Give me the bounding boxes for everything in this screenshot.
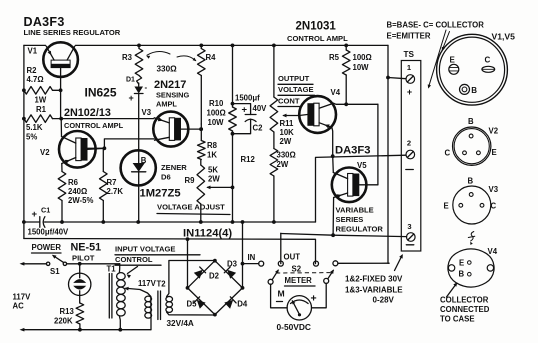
wire bottom border line — [24, 239, 316, 264]
svg-text:C: C — [485, 56, 491, 65]
svg-text:S1: S1 — [50, 267, 60, 276]
svg-text:10W: 10W — [353, 63, 370, 72]
label R13 — [54, 307, 74, 326]
label 1M27Z5 — [140, 188, 181, 200]
squiggle above V4 case — [468, 232, 475, 245]
svg-text:V2: V2 — [40, 148, 50, 157]
label D6 — [161, 173, 171, 182]
svg-text:2W: 2W — [208, 175, 220, 184]
transistor V2 — [59, 131, 104, 168]
svg-text:R3: R3 — [122, 53, 133, 62]
label 117V AC — [13, 293, 32, 311]
wire V4 collector down to V5 base — [377, 104, 379, 185]
terminal 1 screw — [406, 75, 415, 84]
label M — [278, 289, 285, 299]
svg-text:2: 2 — [407, 139, 411, 148]
label E=EMITTER — [387, 32, 431, 41]
svg-text:VARIABLE: VARIABLE — [336, 206, 374, 215]
svg-text:V3: V3 — [489, 185, 499, 194]
svg-text:R10: R10 — [209, 99, 224, 108]
arrow collector to case — [447, 282, 458, 297]
arrow 330 to R4 — [177, 56, 196, 61]
resistor R3 — [135, 45, 143, 84]
svg-text:METER: METER — [285, 276, 313, 285]
svg-text:D5: D5 — [187, 300, 198, 309]
transformer T2 core — [158, 291, 161, 320]
svg-text:V1,V5: V1,V5 — [492, 32, 516, 42]
svg-text:V3: V3 — [142, 108, 152, 117]
diode D2 — [194, 267, 206, 279]
label M minus — [277, 301, 283, 303]
label 40V C2 — [253, 104, 268, 113]
svg-text:1M27Z5: 1M27Z5 — [140, 188, 181, 200]
diode D5 — [194, 297, 206, 309]
svg-text:NE-51: NE-51 — [71, 242, 102, 254]
label VOLTAGE — [278, 85, 315, 95]
S2 gang dashed link — [276, 272, 333, 274]
case V1 V5 outline — [437, 34, 508, 105]
label C1 value — [28, 228, 70, 237]
svg-text:R6: R6 — [68, 178, 79, 187]
label C case V2 — [445, 149, 451, 158]
terminal strip TS outline — [401, 61, 421, 252]
svg-text:1W: 1W — [35, 96, 47, 105]
svg-text:-: - — [145, 83, 148, 92]
switch S2 pole left — [268, 269, 279, 284]
label CONTROL AMPL V4 — [287, 34, 348, 43]
wire top positive rail — [24, 44, 388, 46]
contact S2 A — [314, 261, 319, 266]
svg-text:CONTROL AMPL: CONTROL AMPL — [287, 34, 348, 43]
diode D1 — [134, 83, 143, 149]
svg-text:AMPL: AMPL — [156, 100, 177, 109]
label R12 — [241, 155, 256, 164]
svg-text:1500μf/40V: 1500μf/40V — [28, 228, 70, 237]
svg-text:CONNECTED: CONNECTED — [440, 305, 490, 314]
case V2 pins — [463, 134, 481, 155]
jack IN — [243, 261, 264, 266]
svg-text:VOLTAGE ADJUST: VOLTAGE ADJUST — [157, 203, 225, 212]
svg-text:AC: AC — [13, 302, 25, 311]
switch S2 pole right — [324, 269, 334, 283]
svg-text:DA3F3: DA3F3 — [335, 145, 370, 157]
svg-text:T1: T1 — [107, 265, 117, 274]
wire S2 B to rail riser — [388, 262, 390, 264]
svg-text:V1: V1 — [28, 47, 38, 56]
label V4 — [331, 88, 341, 97]
svg-text:2N102/13: 2N102/13 — [64, 107, 111, 119]
svg-text:LINE SERIES REGULATOR: LINE SERIES REGULATOR — [24, 28, 121, 37]
neon lamp NE-51 — [69, 264, 91, 303]
case V3 outline — [453, 186, 491, 224]
label D2 — [209, 272, 220, 281]
wire V5 collector up to TS2 line — [332, 156, 335, 172]
label SENSING — [156, 91, 190, 100]
wire bridge left node riser — [187, 239, 189, 288]
label V1 — [28, 47, 38, 56]
transistor V1 — [43, 42, 78, 90]
wire V1 base to sense line — [60, 90, 62, 118]
label TO CASE — [440, 315, 475, 324]
svg-text:0-50VDC: 0-50VDC — [277, 322, 311, 332]
potentiometer R9 — [197, 160, 205, 223]
label CONTROL — [115, 255, 161, 265]
terminal 2 screw — [406, 150, 415, 159]
svg-text:220K: 220K — [54, 317, 73, 326]
jack OUT — [278, 261, 283, 266]
svg-text:E: E — [450, 56, 456, 65]
resistor R2 — [24, 87, 61, 95]
label terminal 1 plus — [407, 87, 412, 97]
label R8 — [207, 141, 218, 160]
wire bus stub left of C1 — [24, 221, 40, 223]
wire bottom AC line — [80, 329, 151, 331]
transformer T2 secondary — [166, 261, 215, 316]
svg-text:E: E — [444, 202, 449, 211]
svg-text:330Ω: 330Ω — [157, 65, 178, 74]
label R11 — [280, 119, 295, 146]
label R2 wattage — [35, 96, 47, 105]
wire rail to R10 — [232, 45, 234, 103]
transformer T2 primary — [145, 296, 152, 330]
svg-text:+: + — [129, 93, 134, 103]
case V4 holes — [448, 265, 493, 271]
label AMPL — [156, 100, 177, 109]
svg-text:V5: V5 — [357, 161, 367, 170]
label R3 — [122, 53, 133, 62]
svg-text:R8: R8 — [207, 141, 218, 150]
transistor V3 — [153, 112, 201, 147]
svg-text:E: E — [459, 259, 464, 268]
label COLLECTOR — [440, 296, 489, 305]
svg-text:COLLECTOR: COLLECTOR — [440, 296, 489, 305]
label 1&2-FIXED 30V — [345, 275, 403, 284]
svg-text:4.7Ω: 4.7Ω — [27, 75, 44, 84]
label OUTPUT — [278, 74, 313, 84]
svg-text:2W-5%: 2W-5% — [68, 196, 93, 205]
svg-text:240Ω: 240Ω — [68, 187, 87, 196]
wire R10 bottom to wiper and bus — [232, 136, 234, 222]
label D1 minus — [145, 83, 148, 92]
case B terminal — [460, 84, 478, 94]
label D4 — [237, 300, 248, 309]
svg-text:ZENER: ZENER — [161, 163, 187, 172]
svg-text:POWER: POWER — [32, 243, 62, 252]
svg-text:E: E — [492, 148, 497, 157]
svg-text:R5: R5 — [329, 53, 340, 62]
label METER — [285, 276, 316, 286]
svg-text:2N1031: 2N1031 — [296, 21, 337, 33]
svg-text:R11: R11 — [280, 119, 295, 128]
label 330 ohm shared — [157, 65, 178, 74]
label R1 value — [26, 123, 43, 142]
label CONNECTED — [440, 305, 490, 314]
wire sense line A — [61, 118, 153, 120]
label D5 — [187, 300, 198, 309]
svg-text:+: + — [407, 87, 412, 97]
label E case V3 — [444, 202, 449, 211]
label terminal 2 minus — [406, 169, 414, 171]
svg-text:40V: 40V — [253, 104, 268, 113]
svg-text:INPUT VOLTAGE: INPUT VOLTAGE — [115, 245, 175, 254]
arrow input voltage control — [127, 267, 138, 279]
svg-text:REGULATOR: REGULATOR — [336, 225, 384, 234]
svg-text:2W: 2W — [277, 160, 289, 169]
diode D4 — [224, 297, 236, 309]
wire V2 base branch up to V3 collector line — [104, 139, 153, 148]
label R2 — [27, 66, 44, 84]
svg-text:IN: IN — [248, 253, 256, 262]
svg-text:D3: D3 — [227, 260, 238, 269]
label PILOT — [72, 254, 95, 263]
svg-text:1&2-FIXED 30V: 1&2-FIXED 30V — [345, 275, 403, 284]
label VARIABLE — [336, 206, 374, 215]
label B case V2 — [468, 117, 474, 126]
label VOLTAGE ADJUST — [157, 203, 230, 215]
label 0-28V — [373, 296, 395, 305]
svg-text:IN625: IN625 — [85, 86, 117, 100]
capacitor C2 — [233, 104, 257, 134]
svg-text:OUT: OUT — [284, 253, 301, 262]
svg-text:B: B — [468, 177, 474, 186]
label OUT — [284, 253, 301, 262]
label R5 — [329, 53, 340, 62]
wire bridge right node riser — [242, 222, 244, 288]
label R9 value — [208, 166, 220, 184]
svg-text:D4: D4 — [237, 300, 248, 309]
label R10 — [207, 99, 226, 127]
svg-text:R12: R12 — [241, 155, 256, 164]
switch S1 — [46, 255, 66, 266]
label R4 — [206, 53, 217, 62]
label 1&3-VARIABLE — [345, 286, 403, 295]
svg-text:5.1K: 5.1K — [26, 123, 43, 132]
svg-text:T2: T2 — [157, 280, 167, 289]
arrow annotation long — [428, 30, 446, 89]
case E terminal — [449, 56, 459, 75]
resistor R12 — [270, 149, 278, 223]
svg-text:100Ω: 100Ω — [353, 53, 372, 62]
label V4 case — [488, 247, 498, 256]
label IN1124 — [183, 228, 232, 240]
svg-text:32V/4A: 32V/4A — [167, 319, 194, 328]
svg-text:+: + — [32, 209, 38, 220]
svg-text:R4: R4 — [206, 53, 217, 62]
svg-text:B: B — [468, 117, 474, 126]
label V1,V5 — [492, 32, 516, 42]
svg-text:IN1124(4): IN1124(4) — [183, 228, 232, 240]
label 2N102/13 — [64, 107, 111, 119]
label C1 plus — [32, 209, 38, 220]
label V2 — [40, 148, 50, 157]
svg-text:+: + — [311, 293, 317, 305]
wire V2 emitter down to R6 — [61, 164, 63, 172]
svg-text:10K: 10K — [280, 128, 295, 137]
label terminal 3 minus — [406, 244, 414, 246]
label B case V3 — [468, 177, 474, 186]
label 1500uf C2 — [235, 94, 260, 103]
svg-text:2W: 2W — [280, 137, 292, 146]
label C2 — [253, 124, 264, 133]
wire meter left — [271, 284, 288, 308]
case C terminal — [482, 56, 495, 73]
case V4 pins — [459, 259, 472, 279]
transformer T1 winding — [117, 264, 126, 330]
svg-text:330Ω: 330Ω — [277, 151, 296, 160]
label INPUT VOLTAGE — [115, 245, 200, 255]
wire bridge edges — [188, 261, 243, 315]
svg-text:CONTROL: CONTROL — [115, 255, 153, 264]
svg-text:0-28V: 0-28V — [373, 296, 395, 305]
svg-text:VOLTAGE: VOLTAGE — [278, 85, 314, 94]
label V5 — [357, 161, 367, 170]
label D3 — [227, 260, 238, 269]
case V4 outline — [448, 249, 494, 287]
wire meter right — [312, 283, 327, 307]
label 2N217 — [154, 79, 186, 91]
label LINE SERIES REGULATOR — [24, 28, 121, 37]
svg-text:C: C — [491, 202, 497, 211]
label TS — [404, 50, 415, 59]
label terminal 1 — [407, 63, 412, 72]
svg-text:V4: V4 — [488, 247, 498, 256]
label POWER — [32, 243, 62, 253]
label S1 — [50, 267, 60, 276]
svg-text:117V: 117V — [138, 279, 157, 288]
svg-text:B=BASE- C= COLLECTOR: B=BASE- C= COLLECTOR — [387, 21, 485, 30]
svg-text:R1: R1 — [36, 105, 47, 114]
label IN — [248, 253, 256, 262]
svg-text:3: 3 — [407, 222, 411, 231]
contact S2 B — [333, 261, 389, 266]
label V3 — [142, 108, 152, 117]
wiper R9 — [206, 186, 232, 190]
arrow annotation short — [442, 32, 450, 51]
svg-text:10W: 10W — [208, 118, 225, 127]
wire TS2 line — [316, 155, 407, 222]
svg-text:R2: R2 — [27, 66, 38, 75]
diode D3 — [224, 267, 236, 279]
label D1 plus — [129, 93, 134, 103]
label R7 — [107, 178, 124, 196]
wire to terminal 1 — [388, 78, 406, 79]
label CONT — [278, 97, 300, 107]
label DA3F3 V5 — [335, 145, 370, 157]
svg-text:E=EMITTER: E=EMITTER — [387, 32, 431, 41]
resistor R13 — [76, 303, 84, 330]
resistor R1 — [24, 115, 61, 123]
wire V2 collector up — [60, 119, 62, 137]
transistor V4 — [299, 96, 336, 133]
label C2 plus — [242, 105, 248, 116]
svg-text:C: C — [445, 149, 451, 158]
wire S1 to T1 top — [67, 263, 120, 265]
resistor R10 — [229, 104, 237, 136]
resistor R7 — [100, 148, 108, 222]
svg-text:C1: C1 — [41, 206, 50, 215]
AC input upper lead — [20, 262, 47, 266]
label S2 — [292, 265, 302, 274]
svg-text:B: B — [141, 156, 147, 165]
arrow note to terminal 3 — [395, 254, 403, 271]
label 117V T2 — [138, 279, 166, 289]
wire V5 emitter down to output line — [332, 198, 335, 236]
resistor R4 — [198, 45, 206, 124]
label R6 — [68, 178, 93, 205]
svg-text:S2: S2 — [292, 265, 302, 274]
label M plus — [311, 293, 317, 305]
label D1 — [126, 77, 135, 84]
label terminal 2 — [407, 139, 411, 148]
svg-text:2N217: 2N217 — [154, 79, 186, 91]
svg-text:B: B — [459, 270, 465, 279]
svg-text:CONT: CONT — [278, 97, 300, 106]
svg-text:D2: D2 — [209, 272, 220, 281]
label R1 — [36, 105, 47, 114]
label 0-50VDC — [277, 322, 311, 332]
wire V2 base to R7 — [86, 147, 104, 149]
label ZENER — [161, 163, 187, 172]
wire R4 bottom to V3 base node — [199, 127, 203, 131]
label T1 — [107, 265, 117, 274]
transformer T1 core — [109, 274, 112, 319]
svg-text:TS: TS — [404, 50, 415, 59]
label E case V2 — [492, 148, 497, 157]
label IN625 — [85, 86, 117, 100]
svg-text:R7: R7 — [107, 178, 117, 187]
AC input lower lead — [20, 328, 80, 332]
label NE-51 — [71, 242, 102, 254]
label SERIES — [336, 215, 364, 224]
svg-text:2.7K: 2.7K — [107, 187, 124, 196]
resistor R8 — [198, 124, 206, 160]
label B inside zener — [141, 156, 147, 165]
resistor R5 — [342, 45, 350, 104]
svg-text:PILOT: PILOT — [72, 254, 95, 263]
terminal 3 screw — [407, 233, 416, 242]
svg-text:B: B — [471, 86, 477, 95]
svg-text:1500μf: 1500μf — [235, 94, 260, 103]
svg-text:OUTPUT: OUTPUT — [278, 74, 310, 83]
svg-text:R13: R13 — [60, 307, 75, 316]
label 2N1031 — [296, 21, 337, 33]
svg-text:+: + — [242, 105, 248, 116]
svg-text:117V: 117V — [13, 293, 32, 302]
svg-text:TO CASE: TO CASE — [440, 315, 475, 324]
svg-text:V2: V2 — [489, 127, 499, 136]
svg-text:SERIES: SERIES — [336, 215, 364, 224]
label B=BASE- C=COLLECTOR — [387, 21, 485, 30]
svg-text:SENSING: SENSING — [156, 91, 190, 100]
wire rail corner down to TS — [387, 45, 389, 263]
svg-text:5K: 5K — [208, 166, 218, 175]
wiper T1 — [124, 287, 151, 297]
wire V4 collector to R5 node — [334, 103, 378, 104]
svg-text:C2: C2 — [253, 124, 264, 133]
svg-text:D6: D6 — [161, 173, 171, 182]
meter M — [287, 296, 311, 320]
label R9 — [185, 176, 196, 185]
resistor R6 — [58, 172, 66, 223]
label C1 — [41, 206, 50, 215]
svg-text:V4: V4 — [331, 88, 341, 97]
svg-text:100Ω: 100Ω — [207, 109, 226, 118]
wire V4 emitter down — [331, 128, 334, 157]
label 32V/4A — [167, 319, 194, 328]
svg-text:5%: 5% — [26, 133, 37, 142]
label R5 value — [353, 53, 372, 72]
label V3 case — [489, 185, 499, 194]
